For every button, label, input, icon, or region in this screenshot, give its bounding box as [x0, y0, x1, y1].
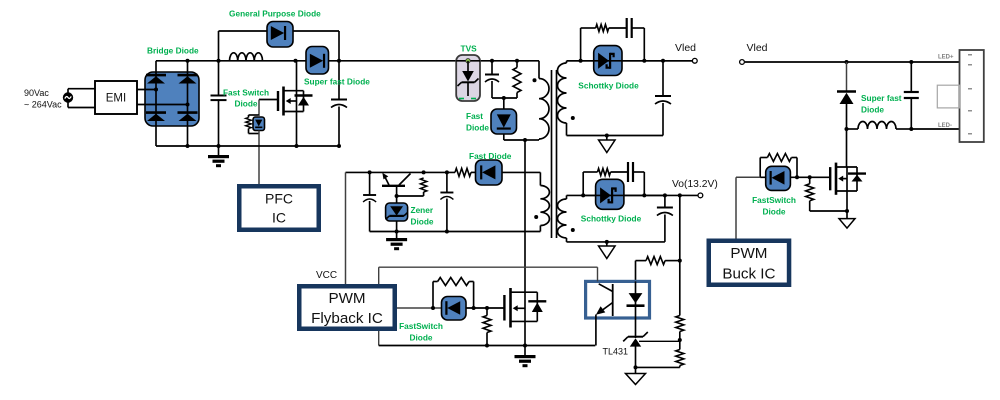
svg-text:Super fast: Super fast	[861, 93, 902, 103]
svg-text:LED+: LED+	[938, 55, 954, 61]
svg-text:FastSwitch: FastSwitch	[752, 195, 796, 205]
svg-text:Flyback IC: Flyback IC	[311, 310, 383, 327]
svg-text:Fast: Fast	[466, 111, 483, 121]
svg-text:IC: IC	[272, 209, 286, 225]
svg-text:Diode: Diode	[234, 99, 257, 109]
svg-text:PFC: PFC	[265, 191, 293, 207]
svg-text:Fast Switch: Fast Switch	[223, 88, 269, 98]
svg-text:Diode: Diode	[861, 105, 884, 115]
svg-text:~ 264Vac: ~ 264Vac	[24, 99, 62, 109]
svg-text:Schottky Diode: Schottky Diode	[581, 214, 642, 224]
svg-text:Fast Diode: Fast Diode	[469, 151, 512, 161]
svg-text:Super fast Diode: Super fast Diode	[304, 77, 370, 87]
svg-text:Vo(13.2V): Vo(13.2V)	[672, 179, 718, 190]
svg-text:PWM: PWM	[730, 245, 767, 262]
svg-text:Diode: Diode	[409, 333, 432, 343]
svg-text:90Vac: 90Vac	[24, 88, 49, 98]
svg-text:Bridge Diode: Bridge Diode	[147, 46, 199, 56]
svg-text:TL431: TL431	[602, 347, 628, 357]
svg-text:VCC: VCC	[316, 270, 337, 281]
svg-text:Diode: Diode	[762, 207, 785, 217]
svg-text:Zener: Zener	[411, 205, 434, 215]
svg-text:Schottky Diode: Schottky Diode	[578, 81, 639, 91]
svg-text:Diode: Diode	[466, 123, 489, 133]
svg-text:Vled: Vled	[675, 42, 696, 54]
svg-text:PWM: PWM	[328, 290, 365, 307]
svg-text:FastSwitch: FastSwitch	[399, 321, 443, 331]
svg-text:EMI: EMI	[106, 93, 126, 105]
svg-text:Diode: Diode	[411, 217, 434, 227]
svg-text:TVS: TVS	[461, 44, 478, 54]
svg-text:General Purpose Diode: General Purpose Diode	[229, 9, 321, 19]
svg-text:Buck IC: Buck IC	[722, 265, 775, 282]
svg-text:Vled: Vled	[747, 42, 768, 54]
svg-text:LED-: LED-	[938, 123, 952, 129]
